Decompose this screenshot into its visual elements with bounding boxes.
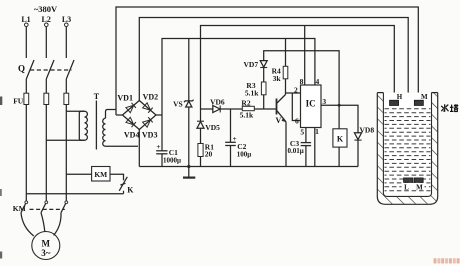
svg-text:VS: VS [173, 99, 183, 108]
capacitor C2 [225, 109, 251, 167]
wire rail4 [162, 39, 315, 116]
zener VS [173, 39, 193, 167]
fuses FU [13, 79, 69, 106]
svg-text:3k: 3k [273, 74, 282, 83]
svg-text:VD3: VD3 [142, 131, 158, 140]
svg-text:K: K [127, 186, 134, 195]
wire KM right [110, 174, 124, 180]
resistor R4 [272, 39, 288, 94]
svg-text:+: + [232, 134, 236, 143]
transformer T [46, 92, 138, 150]
wire node VD6 [201, 108, 214, 110]
motor M [32, 232, 60, 260]
wire L2 drop [45, 27, 47, 58]
svg-text:T: T [94, 92, 100, 101]
resistor R1 [198, 128, 214, 166]
relay K [333, 129, 347, 167]
diode VD6 [210, 98, 225, 113]
svg-text:H: H [397, 93, 403, 101]
svg-text:20: 20 [205, 149, 213, 158]
pin 2 [286, 92, 301, 94]
electrode H [390, 100, 399, 105]
wire bridge left [116, 114, 123, 116]
svg-text:2: 2 [294, 85, 298, 94]
svg-text:+: + [156, 142, 160, 151]
svg-text:M: M [42, 239, 51, 249]
capacitor C1 [156, 115, 181, 167]
svg-text:VD2: VD2 [143, 93, 159, 102]
wire rail2 [139, 18, 408, 178]
svg-text:L: L [404, 183, 409, 191]
pin 3 [321, 104, 339, 106]
electrode M top [414, 100, 423, 105]
diode VD5 [197, 109, 220, 132]
svg-text:VD5: VD5 [205, 123, 220, 132]
wire bridge bottom [138, 130, 140, 167]
pin 6 jog [292, 93, 300, 121]
op-amp U IC [301, 85, 322, 128]
contactor coil KM [92, 167, 110, 182]
svg-text:5: 5 [300, 128, 304, 137]
svg-text:1000μ: 1000μ [163, 157, 181, 165]
wire rail5 VD7 to relay [264, 51, 339, 129]
wire base row [220, 108, 242, 110]
scan smudges [0, 97, 2, 106]
svg-text:KM: KM [13, 204, 26, 213]
svg-text:100μ: 100μ [237, 150, 252, 158]
svg-text:V: V [276, 116, 282, 125]
svg-text:K: K [337, 135, 344, 144]
svg-text:0.01μ: 0.01μ [287, 147, 303, 155]
wire phase3 [65, 105, 67, 202]
pin 8 [304, 26, 306, 86]
svg-text:VD7: VD7 [244, 60, 259, 69]
wire ground rail [139, 166, 358, 168]
label shuita [441, 104, 458, 111]
switch Q [18, 60, 74, 79]
svg-text:VD1: VD1 [117, 93, 133, 102]
pin 1 [314, 128, 316, 167]
svg-text:8: 8 [300, 77, 304, 86]
transistor V [276, 93, 287, 167]
resistor R3 [245, 81, 266, 109]
electrode M bottom [414, 178, 423, 183]
svg-text:3: 3 [322, 97, 326, 106]
ground [183, 165, 195, 178]
svg-text:1: 1 [315, 127, 319, 136]
svg-text:VD4: VD4 [124, 131, 140, 140]
svg-text:IC: IC [306, 99, 316, 109]
bridge rectifier [123, 101, 157, 130]
svg-text:R2: R2 [241, 99, 250, 108]
svg-text:~380V: ~380V [34, 4, 58, 14]
water [385, 109, 431, 191]
svg-text:Q: Q [18, 64, 25, 74]
contact K [119, 177, 134, 195]
svg-text:4: 4 [316, 77, 320, 86]
svg-text:M: M [421, 93, 428, 101]
water tank [377, 93, 437, 205]
wire phase2 [45, 105, 47, 202]
wire L3 drop [65, 27, 67, 58]
svg-text:6: 6 [295, 116, 299, 125]
pin 5 and C3 [287, 128, 311, 167]
electrode L bottom [402, 183, 425, 190]
wire bridge right [156, 114, 162, 116]
watermark [434, 258, 460, 263]
svg-text:3~: 3~ [41, 248, 51, 258]
wire motor leads [21, 213, 34, 236]
svg-text:FU: FU [13, 97, 24, 106]
wire phase1 [25, 105, 27, 202]
wire rail1 [116, 7, 418, 178]
wire KM left [66, 173, 91, 175]
diode VD7 [244, 60, 268, 82]
wire rail3 [201, 26, 395, 110]
resistor R2 [240, 99, 255, 120]
wire L1 drop [25, 27, 27, 58]
svg-text:KM: KM [94, 170, 107, 179]
contactor KM poles [13, 201, 68, 213]
wire K to phase1 [26, 193, 123, 195]
svg-text:5.1k: 5.1k [245, 88, 259, 97]
diode VD8 [339, 105, 374, 166]
svg-text:M: M [416, 183, 423, 191]
svg-text:5.1k: 5.1k [240, 111, 254, 120]
